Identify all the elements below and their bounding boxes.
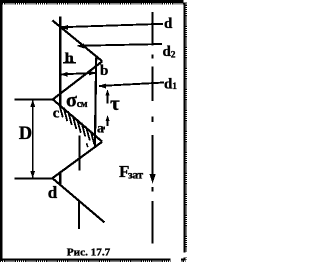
bolt crest line V1 stub at lower tooth <box>59 171 61 184</box>
svg-text:см: см <box>77 99 88 110</box>
border top bar <box>0 0 184 3</box>
arrowhead d1 <box>98 84 106 89</box>
extension line D bottom <box>15 177 53 179</box>
scan gap right border <box>183 253 187 258</box>
thread flank 4 <box>52 142 102 179</box>
arrowhead D up <box>30 100 35 107</box>
dimension line h <box>60 73 96 75</box>
border bottom bar <box>0 259 186 261</box>
dimension line d1 <box>99 83 164 87</box>
border right teeth <box>185 3 187 260</box>
svg-text:σ: σ <box>66 90 77 112</box>
bolt crest line V1 <box>59 17 61 106</box>
border top teeth <box>0 3 184 5</box>
axis dash 1 <box>152 12 154 46</box>
arrowhead d <box>61 25 69 30</box>
border right bar <box>184 3 186 260</box>
speck near a <box>103 127 105 130</box>
arrowhead h left <box>60 72 67 77</box>
svg-text:a: a <box>97 122 104 137</box>
svg-text:d: d <box>48 183 58 202</box>
dimension line d <box>61 24 163 27</box>
tau arrow upper shaft <box>107 92 109 104</box>
svg-text:τ: τ <box>110 91 120 115</box>
axis dot 3 <box>152 187 154 192</box>
extension line D top <box>15 99 54 101</box>
svg-text:1: 1 <box>172 82 177 92</box>
arrowhead D down <box>30 171 35 178</box>
dimension line D <box>32 100 34 178</box>
scan gap bottom border <box>171 257 182 264</box>
svg-text:h: h <box>65 51 74 66</box>
arrowhead h right <box>89 71 96 76</box>
nut bore line segment <box>79 135 81 170</box>
thread flank 1 <box>52 20 102 61</box>
svg-text:зат: зат <box>128 169 143 181</box>
axis dash 2 <box>152 67 154 102</box>
arrowhead F down <box>150 174 156 184</box>
speck below hatch <box>87 143 88 147</box>
border bottom teeth <box>0 260 186 262</box>
thread root line V2 (section a-b) <box>95 57 96 146</box>
svg-text:2: 2 <box>171 50 176 60</box>
force line F <box>152 135 154 181</box>
bolt body line below <box>78 200 80 229</box>
svg-text:Рис. 17.7: Рис. 17.7 <box>67 246 111 258</box>
underline of h <box>63 62 76 64</box>
thread flank 3 (bearing flank) <box>53 99 102 141</box>
svg-text:с: с <box>53 106 60 122</box>
thread flank 2 <box>53 61 103 99</box>
axis dash 3 <box>152 201 154 243</box>
arrowhead tau lower <box>106 115 110 121</box>
svg-text:d: d <box>164 16 173 32</box>
svg-text:D: D <box>19 124 32 144</box>
axis dot 2 <box>152 117 154 123</box>
tau arrow lower shaft <box>107 118 109 127</box>
dimension line d2 <box>78 44 162 46</box>
svg-text:b: b <box>100 63 108 79</box>
arrowhead d2 <box>77 44 85 49</box>
thread flank 5 <box>52 178 104 222</box>
axis dot 1 <box>152 55 154 59</box>
border left bar <box>0 0 3 261</box>
arrowhead tau upper <box>105 90 109 96</box>
hatching of bearing surface <box>59 104 63 118</box>
